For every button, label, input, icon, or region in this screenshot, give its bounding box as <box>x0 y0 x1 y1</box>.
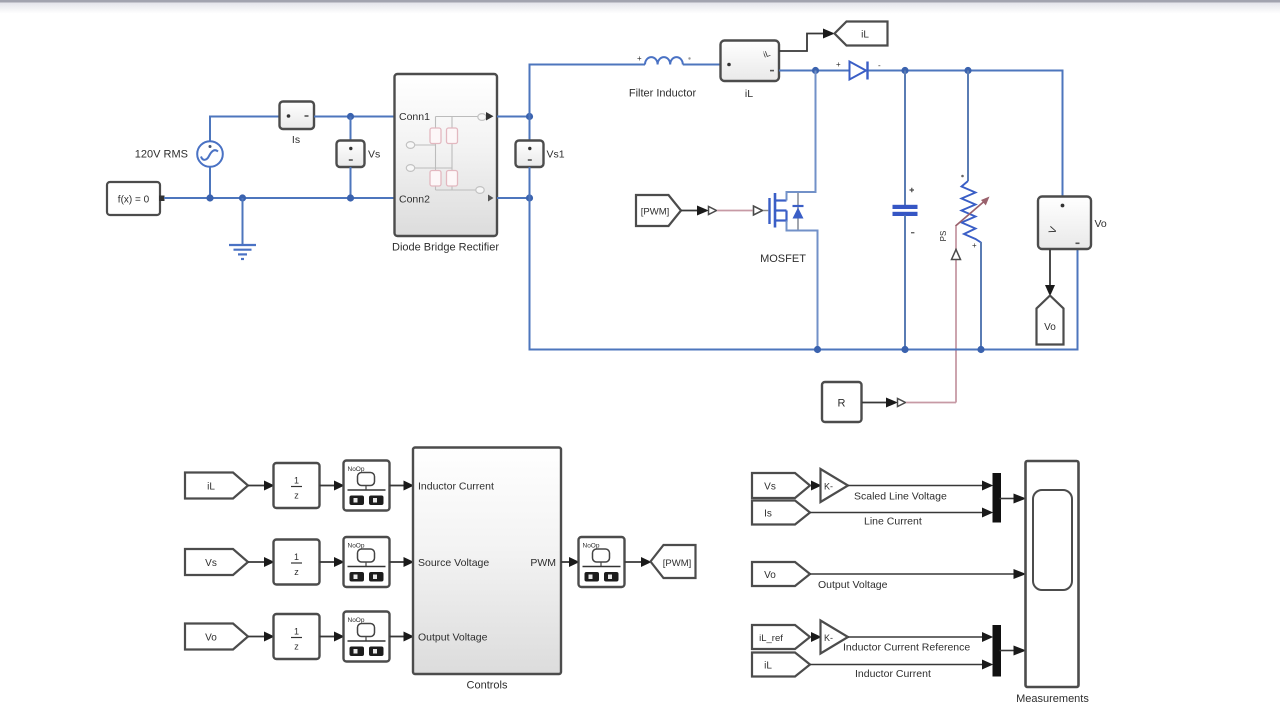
arrowhead into gain2 <box>811 632 822 642</box>
mux 2 <box>993 625 1002 677</box>
wire solver to node <box>164 197 210 199</box>
svg-text:Vo: Vo <box>205 633 217 644</box>
capacitor C1 top wire <box>904 71 906 206</box>
voltage sensor Vs1 <box>516 141 544 168</box>
current sensor Is <box>280 102 315 130</box>
wire gain1 to mux1 <box>848 485 983 487</box>
arrowhead into unit delay 2 <box>264 557 275 567</box>
left rail Vs1 to bottom node <box>529 167 531 198</box>
from tag Vo (controls row3) <box>185 624 248 650</box>
svg-text:Controls: Controls <box>467 680 508 692</box>
bridge inner sketch wires <box>414 117 478 191</box>
node at ground tap <box>239 194 246 201</box>
wire inductor to iL sensor <box>683 64 721 66</box>
node resistor bottom rail <box>977 346 984 353</box>
node MOSFET drain tap <box>812 67 819 74</box>
solver f(x)=0 block <box>107 182 165 215</box>
arrowhead into rate transition 2 <box>334 557 345 567</box>
MOSFET source connector wire <box>787 221 818 351</box>
svg-text:z: z <box>294 642 299 652</box>
gate input open arrow <box>754 206 763 215</box>
wire Vs to bottom rail <box>350 167 352 198</box>
wire gain2 to mux2 <box>848 636 983 638</box>
arrowhead into unit delay 1 <box>264 481 275 491</box>
from tag Vs (controls row2) <box>185 549 248 575</box>
variable resistor R-load zigzag <box>961 175 981 250</box>
bottom wire source row <box>210 197 395 199</box>
arrowhead into Controls in3 <box>404 632 415 642</box>
arrowhead into rate transition 4 <box>569 557 580 567</box>
arrowhead Vo to scope <box>1014 569 1027 579</box>
wire Conn2 to left rail <box>497 197 530 199</box>
PS control wire vertical <box>955 226 957 403</box>
svg-text:Vs: Vs <box>205 558 217 569</box>
arrowhead mux2 to scope <box>1014 646 1027 656</box>
wire rate transition to Controls row1 <box>390 485 405 487</box>
svg-text:iL: iL <box>861 30 869 41</box>
rate transition NoOp out <box>579 537 625 587</box>
node rail-Conn1 <box>526 113 533 120</box>
wire unit delay to rate transition row1 <box>320 485 336 487</box>
wire Is to bridge Conn1 <box>314 116 395 118</box>
node capacitor tap <box>901 67 908 74</box>
ground stem wire <box>242 198 244 244</box>
left rail top segment <box>529 117 531 142</box>
svg-text:+: + <box>972 241 977 250</box>
wire source top to Is <box>210 116 280 118</box>
from tag Vs (measurements) <box>752 473 810 498</box>
arrowhead Is to mux1 <box>982 508 993 518</box>
S-PS converter open arrow R <box>898 399 906 407</box>
variable resistor wiper arrow <box>956 197 990 227</box>
svg-text:PWM: PWM <box>530 557 556 569</box>
node at source bottom <box>206 194 213 201</box>
svg-text:+: + <box>836 60 841 69</box>
svg-text:1: 1 <box>294 552 299 562</box>
from tag Vo (measurements) <box>752 562 810 586</box>
wire tag iL to unit delay <box>248 485 265 487</box>
from tag PWM (gate drive) <box>636 195 681 226</box>
left rail up to top rail corner <box>530 65 646 117</box>
MOSFET drain connector wire <box>787 71 816 201</box>
svg-text:Is: Is <box>292 134 300 146</box>
variable resistor bottom wire <box>980 242 982 351</box>
svg-text:Diode Bridge Rectifier: Diode Bridge Rectifier <box>392 242 499 254</box>
capacitor C1 plates <box>893 188 918 234</box>
arrowhead into unit delay 3 <box>264 632 275 642</box>
svg-text:Vo: Vo <box>1044 322 1056 333</box>
wire rate transition to Controls row2 <box>390 561 405 563</box>
unit delay 1/z row3 <box>274 614 320 659</box>
arrowhead into Controls in1 <box>404 481 415 491</box>
current sensor iL <box>721 41 780 82</box>
svg-text:Output Voltage: Output Voltage <box>418 632 488 644</box>
rate transition NoOp row1 <box>344 461 390 511</box>
wire right corner down to Vo sensor <box>1062 71 1064 198</box>
svg-text:iL: iL <box>764 661 772 672</box>
arrowhead into gain1 <box>811 481 822 491</box>
signal wire PWM to converter <box>681 210 698 212</box>
svg-text:Conn2: Conn2 <box>399 194 430 206</box>
svg-text:Scaled Line Voltage: Scaled Line Voltage <box>854 491 947 503</box>
capacitor C1 bottom wire <box>904 216 906 351</box>
svg-text:Vs: Vs <box>368 149 380 161</box>
svg-text:Inductor Current: Inductor Current <box>418 481 494 493</box>
arrowhead gain2 to mux2 <box>982 632 993 642</box>
svg-text:Conn1: Conn1 <box>399 111 430 123</box>
svg-text:MOSFET: MOSFET <box>760 253 806 265</box>
variable resistor R-load top wire <box>967 71 969 182</box>
svg-text:120V RMS: 120V RMS <box>135 149 188 161</box>
svg-text:iL: iL <box>745 88 753 100</box>
svg-text:Filter Inductor: Filter Inductor <box>629 88 697 100</box>
scope Measurements block <box>1026 461 1079 687</box>
unit delay 1/z row2 <box>274 540 320 585</box>
voltage sensor Vs <box>337 141 365 168</box>
wire unit delay to rate transition row2 <box>320 561 336 563</box>
filter inductor L1 coil <box>637 54 691 65</box>
diode D5 <box>836 60 881 80</box>
subsystem Controls <box>413 448 561 675</box>
svg-text:R: R <box>838 398 846 410</box>
svg-text:iL: iL <box>207 482 215 493</box>
svg-text:[PWM]: [PWM] <box>663 558 692 569</box>
arrowhead mux1 to scope <box>1014 494 1027 504</box>
svg-text:K-: K- <box>824 633 833 643</box>
wire unit delay to rate transition row3 <box>320 636 336 638</box>
svg-text:Vo: Vo <box>764 570 776 581</box>
svg-text:Inductor Current: Inductor Current <box>855 668 931 680</box>
arrowhead gain1 to mux1 <box>982 481 993 491</box>
wire tag Vs to unit delay <box>248 561 265 563</box>
svg-text:Inductor Current Reference: Inductor Current Reference <box>843 642 970 654</box>
wire Is to mux1 <box>810 512 983 514</box>
physical signal wire to gate <box>717 210 753 212</box>
node rail-Conn2 <box>526 194 533 201</box>
svg-text:1: 1 <box>294 627 299 637</box>
bridge inner terminal circles <box>406 114 486 194</box>
wire rate transition to PWM goto <box>625 561 642 563</box>
goto tag PWM <box>651 545 696 578</box>
from tag iL (measurements) <box>752 653 810 677</box>
svg-text:Vo: Vo <box>1095 218 1107 230</box>
bridge inner diodes D1-D4 <box>430 128 458 186</box>
wire Conn1 to left rail <box>497 116 530 118</box>
arrowhead into Vo goto <box>1045 285 1055 296</box>
wire Controls to rate transition out <box>561 561 570 563</box>
svg-text:z: z <box>294 491 299 501</box>
svg-text:+: + <box>637 54 642 63</box>
arrowhead into Controls in2 <box>404 557 415 567</box>
gain K- inductor current ref <box>821 621 849 654</box>
node capacitor bottom rail <box>901 346 908 353</box>
top window bar line <box>0 0 1280 3</box>
mux 1 <box>993 473 1002 523</box>
S-PS converter open arrow <box>709 207 717 215</box>
wire iL sensor to diode <box>779 70 849 72</box>
signal wire Vo sensor down <box>1049 250 1051 287</box>
svg-text:iL_ref: iL_ref <box>759 633 783 644</box>
svg-text:Vs1: Vs1 <box>547 149 565 161</box>
wire tag Vo to unit delay <box>248 636 265 638</box>
arrowhead into PWM goto <box>641 557 652 567</box>
rate transition NoOp row2 <box>344 537 390 587</box>
node resistor tap <box>964 67 971 74</box>
svg-text:f(x) = 0: f(x) = 0 <box>118 195 150 206</box>
diode bridge rectifier block <box>395 74 498 236</box>
svg-text:Line Current: Line Current <box>864 516 922 528</box>
arrowhead iL to mux2 <box>982 660 993 670</box>
wire iL to mux2 <box>810 664 983 666</box>
svg-text:Source Voltage: Source Voltage <box>418 557 489 569</box>
AC voltage source V1 120V RMS <box>197 116 223 199</box>
svg-text:[PWM]: [PWM] <box>641 207 670 218</box>
arrowhead into rate transition 1 <box>334 481 345 491</box>
unit delay 1/z row1 <box>274 463 320 508</box>
bridge output port arrow Conn2 <box>488 195 494 202</box>
physical signal wire R to resistor <box>906 402 956 404</box>
wire mux2 to scope <box>1000 650 1015 652</box>
signal wire iL sensor to goto <box>779 34 824 52</box>
goto tag Vo <box>1037 296 1064 345</box>
svg-text:PS: PS <box>939 231 948 242</box>
signal wire R to converter <box>862 402 887 404</box>
gain K- scaled line voltage <box>821 469 849 502</box>
voltage sensor Vo <box>1038 197 1091 250</box>
svg-text:Is: Is <box>764 509 772 520</box>
bridge output port arrow Conn1 <box>486 112 494 121</box>
node at Vs bottom <box>347 194 354 201</box>
svg-text:Measurements: Measurements <box>1016 693 1089 705</box>
svg-text:Vs: Vs <box>764 482 776 493</box>
wire diode to right corner <box>869 70 1064 72</box>
bottom rail wire <box>530 249 1078 350</box>
left rail down to bottom rail <box>529 198 531 351</box>
svg-text:1: 1 <box>294 476 299 486</box>
block R (load resistance input) <box>822 382 862 422</box>
rate transition NoOp row3 <box>344 612 390 662</box>
node source bottom rail <box>814 346 821 353</box>
svg-text:z: z <box>294 567 299 577</box>
wire node to Vs <box>350 117 352 142</box>
arrowhead into rate transition 3 <box>334 632 345 642</box>
goto tag iL <box>835 22 888 46</box>
PS input open arrow <box>952 250 961 260</box>
arrowhead R converter <box>886 398 898 408</box>
wire mux1 to scope <box>1000 498 1015 500</box>
svg-text:K-: K- <box>824 482 833 492</box>
from tag iL_ref <box>752 625 810 649</box>
transistor Q1 MOSFET <box>763 193 804 231</box>
node junction at Vs top <box>347 113 354 120</box>
svg-text:Output Voltage: Output Voltage <box>818 579 888 591</box>
from tag Is (measurements) <box>752 501 810 525</box>
ground symbol <box>229 245 256 259</box>
arrowhead PWM converter <box>697 206 709 216</box>
svg-text:-: - <box>878 61 881 70</box>
wire Vo to scope <box>810 573 1014 575</box>
from tag iL (controls row1) <box>185 473 248 499</box>
arrowhead into iL goto <box>823 29 835 39</box>
wire rate transition to Controls row3 <box>390 636 405 638</box>
top bar gradient fade <box>0 3 1280 14</box>
